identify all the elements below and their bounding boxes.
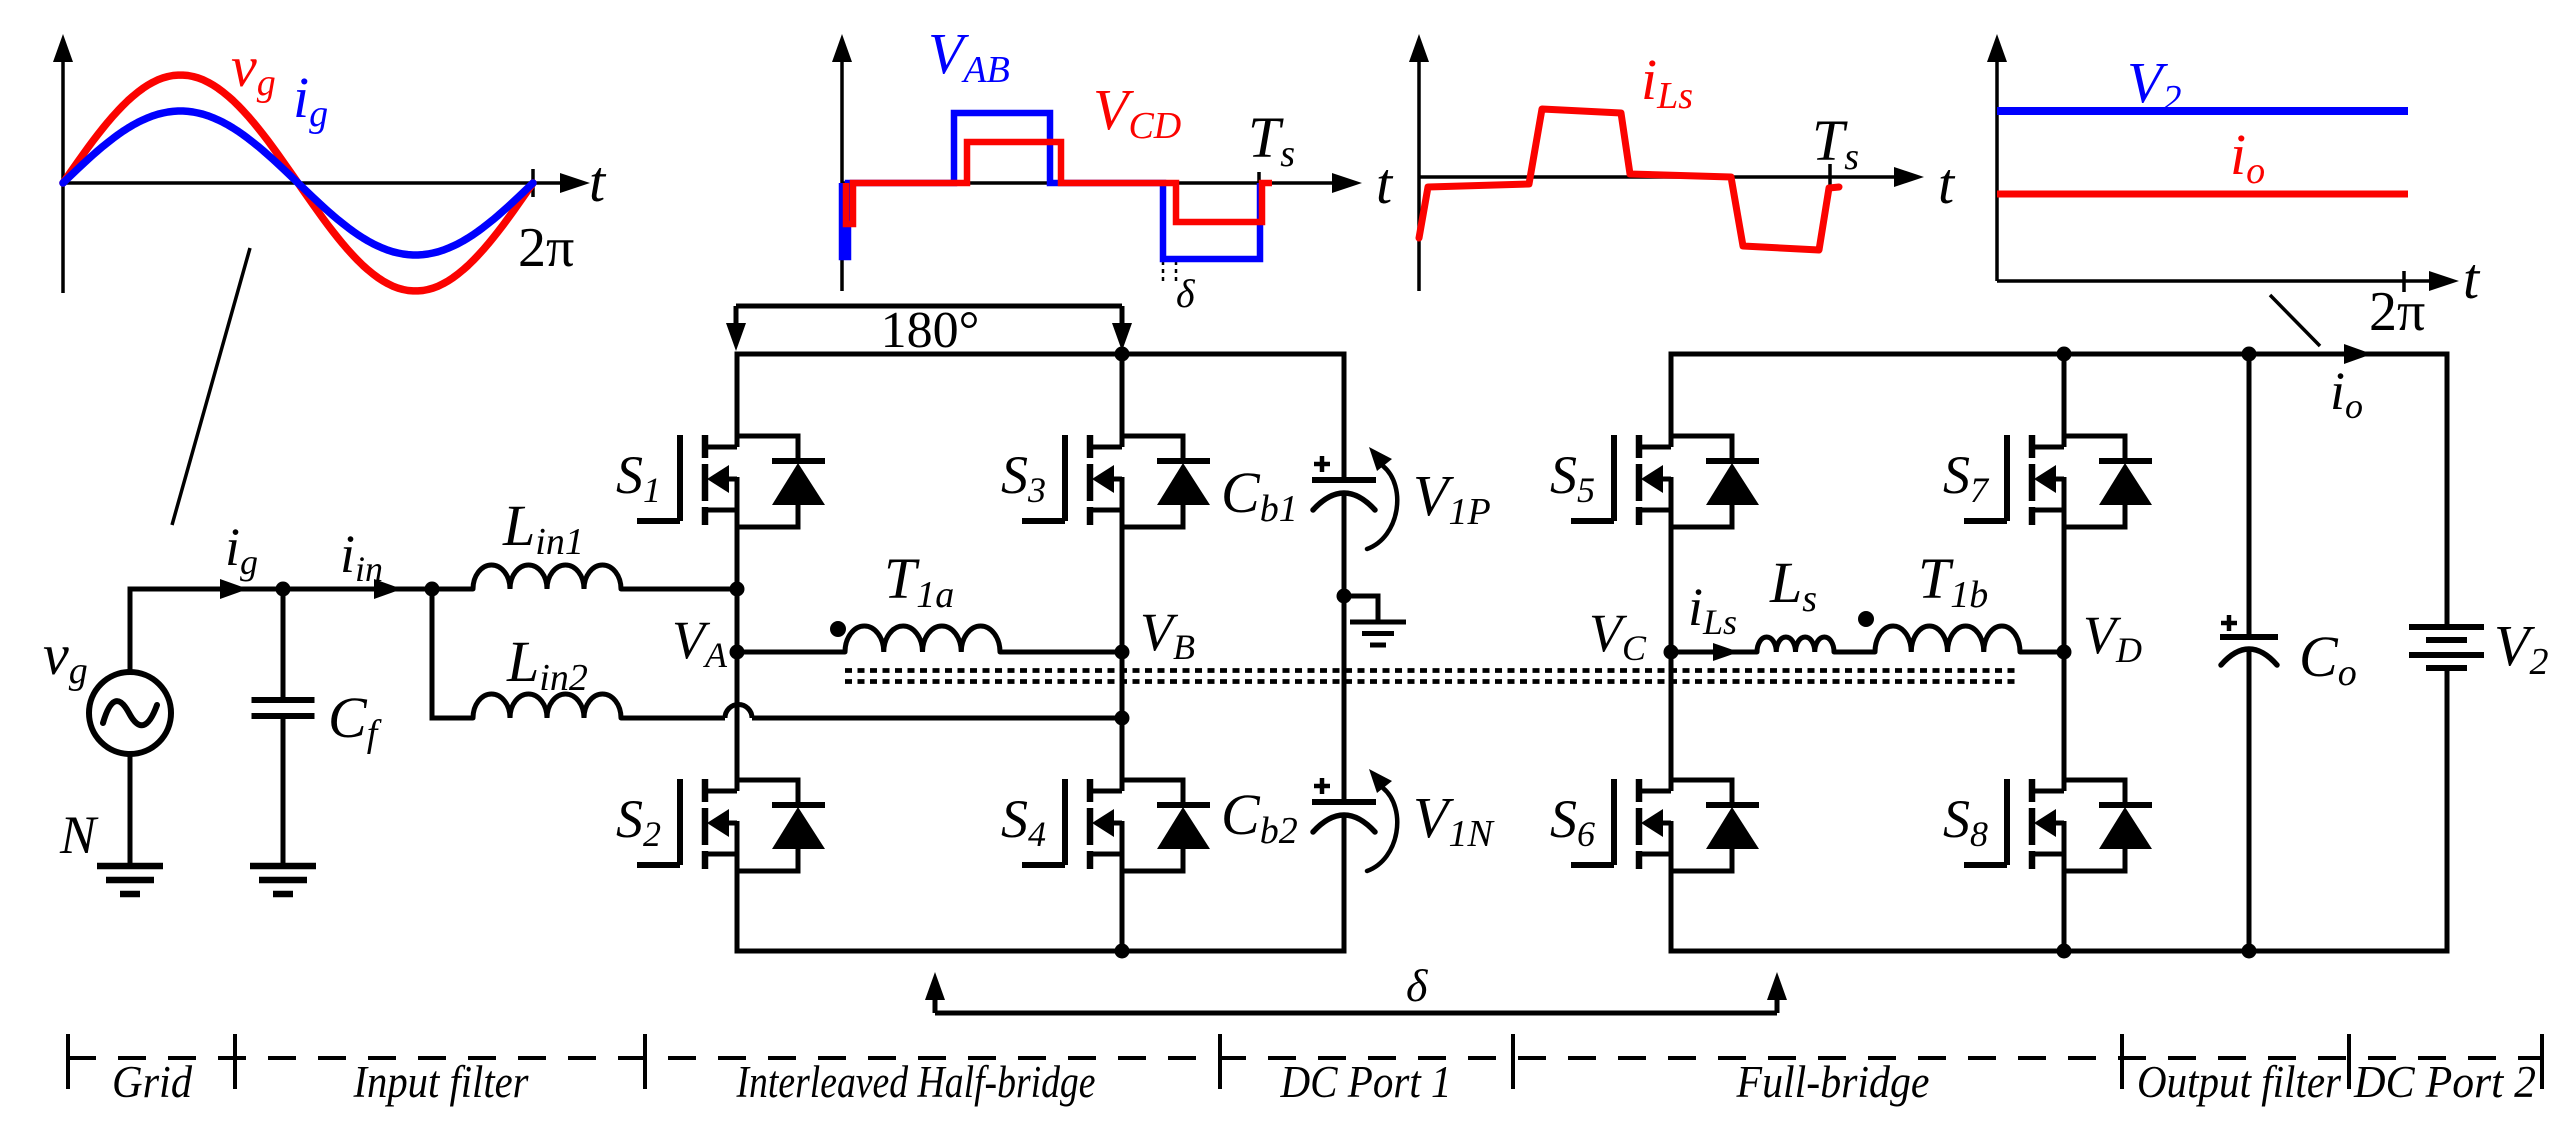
svg-text:S5: S5 bbox=[1550, 445, 1595, 510]
svg-text:S7: S7 bbox=[1943, 445, 1990, 510]
top rail full-bridge bbox=[1669, 352, 2450, 357]
svg-text:Interleaved Half-bridge: Interleaved Half-bridge bbox=[736, 1057, 1096, 1107]
transformer core dashed lines bbox=[845, 671, 2017, 682]
node leg D top bbox=[2057, 347, 2072, 362]
pointer line from plot 4 to io wire bbox=[2270, 295, 2320, 346]
node Lin2-VB junction bbox=[1115, 711, 1130, 726]
svg-text:iLs: iLs bbox=[1688, 577, 1737, 642]
wire leg A (S1/S2) bbox=[735, 352, 740, 954]
curve vg (red sine) bbox=[63, 75, 533, 291]
svg-text:V2: V2 bbox=[2494, 613, 2548, 683]
current arrow iLs bbox=[1713, 643, 1739, 661]
svg-text:S3: S3 bbox=[1001, 445, 1046, 510]
svg-text:iin: iin bbox=[340, 524, 383, 589]
capacitor Cb1 (polarized) bbox=[1312, 456, 1376, 510]
transistor S6 (MOSFET with body diode) bbox=[1571, 779, 1759, 871]
plot 3 axes (iLs vs t) bbox=[1409, 34, 1924, 291]
svg-text:δ: δ bbox=[1176, 271, 1196, 316]
waveform VAB (blue) bbox=[842, 113, 1260, 259]
inductor Ls bbox=[1757, 637, 1834, 652]
current arrow io bbox=[2344, 344, 2372, 364]
svg-text:ig: ig bbox=[293, 65, 328, 135]
svg-text:V2: V2 bbox=[2127, 50, 2181, 120]
transistor S7 (MOSFET with body diode) bbox=[1964, 435, 2152, 527]
svg-text:Full-bridge: Full-bridge bbox=[1736, 1057, 1930, 1107]
svg-text:VD: VD bbox=[2083, 605, 2142, 670]
region separator dashed line bbox=[68, 1056, 2542, 1060]
transistor S8 (MOSFET with body diode) bbox=[1964, 779, 2152, 871]
node VD bbox=[2057, 645, 2072, 660]
current arrow iin bbox=[374, 579, 402, 599]
AC source vg bbox=[89, 672, 171, 754]
plot 4 axes (V2/io vs t) bbox=[1987, 34, 2459, 292]
plot 2 axes (VAB/VCD vs t) bbox=[832, 34, 1362, 291]
wire Cb leg bbox=[1342, 352, 1347, 954]
transistor S2 (MOSFET with body diode) bbox=[637, 779, 825, 871]
svg-text:S8: S8 bbox=[1943, 789, 1988, 854]
capacitor Cb2 (polarized) bbox=[1312, 778, 1376, 832]
svg-text:T1b: T1b bbox=[1918, 546, 1988, 616]
svg-text:VCD: VCD bbox=[1093, 77, 1181, 147]
svg-text:t: t bbox=[1938, 151, 1956, 216]
svg-text:2π: 2π bbox=[518, 217, 574, 279]
svg-text:S1: S1 bbox=[616, 445, 661, 510]
node leg B bottom bbox=[1115, 944, 1130, 959]
node Lin2 tap bbox=[425, 582, 440, 597]
svg-text:iLs: iLs bbox=[1641, 47, 1693, 117]
svg-text:S2: S2 bbox=[616, 789, 661, 854]
180 degree bracket bbox=[726, 306, 1132, 351]
wire vg top bbox=[128, 587, 133, 673]
wire VC to Ls bbox=[1671, 650, 1757, 655]
capacitor Co bbox=[2220, 354, 2278, 951]
node Cf tap bbox=[276, 582, 291, 597]
svg-text:Grid: Grid bbox=[112, 1057, 192, 1107]
svg-text:Cb2: Cb2 bbox=[1221, 782, 1298, 852]
line V2 (blue) bbox=[1997, 107, 2408, 115]
ground DC port 1 bbox=[1350, 620, 1406, 625]
svg-text:V1N: V1N bbox=[1413, 785, 1495, 855]
inductor Lin2 bbox=[473, 694, 725, 718]
inductor Lin1 bbox=[473, 565, 737, 589]
node leg D bottom bbox=[2057, 944, 2072, 959]
wire leg B (S3/S4) bbox=[1120, 352, 1125, 954]
transistor S3 (MOSFET with body diode) bbox=[1022, 435, 1210, 527]
transistor S5 (MOSFET with body diode) bbox=[1571, 435, 1759, 527]
voltage arrow V1P bbox=[1367, 466, 1397, 549]
curve ig (blue sine) bbox=[63, 111, 533, 255]
svg-text:N: N bbox=[59, 805, 99, 865]
wire Lin2 branch bbox=[432, 589, 473, 721]
svg-text:t: t bbox=[2463, 246, 2481, 311]
delta marker dotted lines bbox=[1162, 261, 1165, 284]
current arrow ig bbox=[220, 579, 248, 599]
svg-text:S4: S4 bbox=[1001, 789, 1046, 854]
svg-text:δ: δ bbox=[1406, 960, 1428, 1011]
voltage arrow V1N bbox=[1367, 788, 1397, 871]
node Co bottom bbox=[2242, 944, 2257, 959]
svg-text:vg: vg bbox=[43, 622, 88, 692]
svg-text:2π: 2π bbox=[2369, 281, 2425, 343]
bottom rail full-bridge bbox=[1669, 949, 2450, 954]
svg-text:VB: VB bbox=[1140, 602, 1195, 667]
transformer T1a primary winding bbox=[737, 626, 1122, 652]
phase dot T1b bbox=[1858, 611, 1874, 627]
svg-text:Ts: Ts bbox=[1812, 108, 1859, 178]
wire Ls to T1b bbox=[1834, 650, 1875, 655]
svg-text:180°: 180° bbox=[881, 302, 980, 359]
capacitor Cf bbox=[252, 589, 315, 864]
node VC bbox=[1664, 645, 1679, 660]
svg-text:t: t bbox=[1376, 151, 1394, 216]
phase dot T1a bbox=[830, 621, 846, 637]
ground N bbox=[97, 863, 163, 870]
svg-text:io: io bbox=[2230, 122, 2265, 192]
svg-text:Cb1: Cb1 bbox=[1221, 460, 1298, 530]
svg-text:S6: S6 bbox=[1550, 789, 1595, 854]
wire T1b to VD bbox=[2020, 650, 2064, 655]
plot 1 axes (vg/ig vs t) bbox=[53, 34, 590, 293]
svg-text:t: t bbox=[589, 149, 607, 214]
wire leg D (S7/S8) bbox=[2062, 352, 2067, 954]
line io (red) bbox=[1997, 191, 2408, 198]
node VA bbox=[730, 645, 745, 660]
node Lin1 junction bbox=[730, 582, 745, 597]
svg-text:VAB: VAB bbox=[928, 21, 1010, 91]
wire vg bottom bbox=[128, 754, 133, 864]
wire hop over leg A bbox=[725, 705, 752, 719]
svg-text:T1a: T1a bbox=[884, 546, 954, 616]
svg-text:Co: Co bbox=[2299, 624, 2357, 694]
svg-text:VA: VA bbox=[672, 610, 728, 675]
svg-text:Output filter: Output filter bbox=[2137, 1057, 2341, 1107]
transistor S1 (MOSFET with body diode) bbox=[637, 435, 825, 527]
svg-text:DC Port 1: DC Port 1 bbox=[1280, 1057, 1452, 1107]
wire leg C (S5/S6) bbox=[1669, 352, 1674, 954]
top rail half-bridge bbox=[735, 352, 1345, 357]
svg-text:Input filter: Input filter bbox=[353, 1057, 529, 1107]
wire to mid ground bbox=[1344, 596, 1378, 620]
transformer T1b secondary winding bbox=[1875, 626, 2020, 652]
battery V2 bbox=[2409, 354, 2484, 951]
svg-text:VC: VC bbox=[1589, 603, 1647, 668]
svg-text:DC Port 2: DC Port 2 bbox=[2353, 1057, 2536, 1107]
ground Cf bbox=[250, 863, 316, 870]
wire Lin2 to VB leg bbox=[752, 716, 1122, 721]
bottom rail half-bridge bbox=[735, 949, 1347, 954]
svg-text:ig: ig bbox=[225, 517, 258, 582]
node Co top bbox=[2242, 347, 2257, 362]
pointer line from plot 1 to vg source bbox=[172, 248, 250, 525]
wire grid top horizontal bbox=[128, 587, 474, 592]
svg-text:Lin2: Lin2 bbox=[506, 629, 588, 699]
transistor S4 (MOSFET with body diode) bbox=[1022, 779, 1210, 871]
delta phase-shift bracket bbox=[925, 972, 1787, 1013]
node DC port 1 midpoint bbox=[1337, 589, 1352, 604]
svg-text:Ls: Ls bbox=[1769, 550, 1817, 620]
svg-text:Cf: Cf bbox=[328, 685, 382, 755]
node leg B top bbox=[1115, 347, 1130, 362]
svg-text:io: io bbox=[2330, 361, 2363, 426]
svg-text:vg: vg bbox=[231, 34, 276, 104]
node VB bbox=[1115, 645, 1130, 660]
svg-text:Lin1: Lin1 bbox=[502, 493, 584, 563]
waveform iLs (red) bbox=[1419, 109, 1839, 250]
svg-text:Ts: Ts bbox=[1248, 105, 1295, 175]
waveform VCD (red) bbox=[846, 142, 1272, 224]
region ticks bbox=[68, 1034, 2542, 1089]
svg-text:V1P: V1P bbox=[1413, 463, 1491, 533]
